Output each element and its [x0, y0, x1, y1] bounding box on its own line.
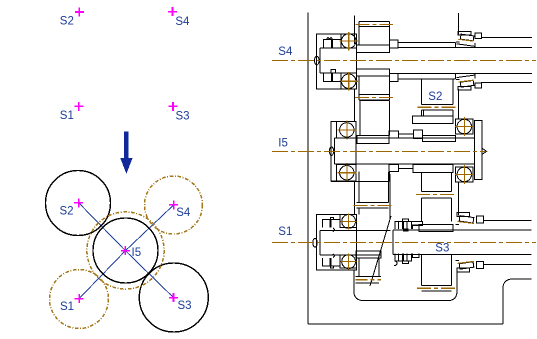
node S2 point cross — [75, 8, 84, 17]
housing inner bottom contour — [354, 270, 457, 301]
svg-text:S2: S2 — [60, 206, 74, 218]
housing web left segments — [354, 89, 356, 121]
seal S3 tab filled — [403, 229, 408, 232]
bearing S4 upper ball — [342, 34, 356, 48]
shaft S1 center mark — [313, 238, 317, 247]
centerline S4 — [272, 60, 536, 62]
gear S1 hub rect — [356, 251, 381, 258]
gear circle S3 (solid) — [139, 263, 208, 332]
seal S1 upper — [322, 217, 340, 231]
gear S4 tooth band top — [359, 21, 390, 26]
pitch line I5 lower — [354, 204, 392, 206]
gear S2 tooth band — [421, 105, 453, 111]
gear circle S4 (dashed) — [145, 176, 203, 234]
centerline S1-S3 — [272, 242, 536, 244]
gear S3 hub — [419, 225, 453, 232]
housing web top-left — [353, 16, 355, 45]
node S1 point cross — [74, 102, 83, 111]
gear S2 body — [421, 78, 453, 116]
bearing I5 left upper ball — [340, 123, 354, 137]
seal S4 upper — [323, 37, 341, 48]
pitch line S3 upper — [416, 194, 456, 196]
housing right lower contour — [503, 279, 532, 324]
gear S3 step left — [411, 221, 422, 225]
bearing S1 upper ball — [342, 215, 356, 229]
svg-text:S4: S4 — [175, 16, 190, 28]
shaft S4 neck — [320, 48, 357, 73]
gear S3 body upper — [422, 172, 452, 221]
wire center line I5-S3 — [125, 251, 173, 298]
pitch line S1 bottom — [355, 279, 381, 281]
svg-text:S3: S3 — [176, 111, 190, 123]
pitch line S2 — [417, 106, 456, 108]
section diagonal — [370, 216, 391, 286]
gear I5 upper hub — [357, 135, 389, 143]
bearing S4 lower square — [341, 73, 357, 89]
coupling rect B upper — [413, 130, 422, 138]
bearing cap S4 left — [317, 34, 357, 89]
gear S2 hub — [413, 116, 453, 123]
shaft I5 end chevron — [483, 149, 487, 155]
gear I5 lower body — [359, 172, 389, 203]
svg-text:S4: S4 — [278, 46, 293, 58]
pitch line S4 top — [355, 24, 393, 26]
gear S1 tooth band bottom — [355, 277, 381, 283]
svg-text:I5: I5 — [132, 247, 142, 259]
coupling rect A upper — [389, 131, 398, 138]
coupling connector upper — [398, 133, 413, 135]
bearing I5 right lower square — [456, 167, 474, 182]
seal S4 lower — [323, 69, 341, 81]
shaft I5 body — [335, 138, 475, 164]
wire center line I5-S1 — [79, 251, 125, 299]
bearing I5 right lower ball — [457, 167, 471, 181]
coupling sleeve upper — [422, 135, 455, 141]
bearing I5 left lower ball — [340, 166, 354, 180]
housing wall top-right — [458, 13, 460, 35]
node S2 center cross — [74, 198, 83, 207]
bearing I5 right upper square — [456, 119, 474, 134]
bearing I5 right upper ball — [457, 119, 471, 133]
coupling connector lower — [399, 167, 414, 169]
gear S1 upper body — [359, 174, 390, 219]
svg-text:S2: S2 — [428, 91, 442, 103]
svg-text:S1: S1 — [60, 110, 74, 122]
housing web right segments — [458, 89, 460, 119]
svg-text:S3: S3 — [435, 243, 449, 255]
coupling rect A lower — [389, 164, 399, 171]
node S1 center cross — [75, 294, 84, 303]
svg-text:S1: S1 — [278, 226, 292, 238]
coupling I5 upper: gear edge — [389, 101, 391, 131]
gear circle I5 outer (dashed) — [87, 212, 164, 289]
node I5 center cross — [121, 246, 130, 255]
bearing I5 left lower square — [337, 165, 356, 182]
bearing S3 taper lower — [456, 261, 484, 273]
svg-text:S1: S1 — [60, 301, 74, 313]
pitch line S3 bottom — [417, 287, 455, 289]
centerline I5 — [272, 150, 485, 152]
coupling I5 lower: gear edge — [389, 172, 391, 182]
gear S1 lower body — [359, 258, 379, 277]
bearing I5 left upper square — [337, 122, 356, 139]
gear S3 body lower — [422, 255, 452, 285]
shaft I5 center mark — [329, 147, 333, 155]
arrow down — [120, 132, 132, 174]
bearing S3 taper upper — [456, 213, 484, 225]
gear S4 tooth band bottom — [359, 95, 390, 100]
gear I5 upper body — [360, 101, 390, 136]
bearing S4 taper lower — [456, 79, 482, 90]
svg-text:S4: S4 — [176, 207, 191, 219]
node S4 center cross — [169, 200, 178, 209]
seal S3 upper — [395, 219, 421, 229]
bearing cap S1 left — [317, 215, 357, 270]
shaft S4 step right — [390, 40, 399, 48]
pitch line I5 upper — [355, 97, 393, 99]
gear S3 upper hub rect — [413, 164, 453, 172]
node S3 center cross — [169, 293, 178, 302]
svg-text:S2: S2 — [60, 16, 74, 28]
svg-text:S3: S3 — [178, 300, 192, 312]
gear I5 lower hub line — [331, 181, 388, 183]
bearing S4 taper upper — [456, 31, 482, 42]
gear circle S2 (solid) — [46, 171, 111, 236]
gear circle I5 inner (solid) — [93, 218, 158, 283]
bearing S1 lower square — [340, 255, 357, 268]
gear S4 hub rects — [356, 45, 389, 52]
bearing S4 upper square — [341, 34, 357, 48]
shaft S1-S3 lines — [320, 230, 532, 255]
shaft S4 mid lines — [398, 42, 532, 79]
gear S3 tooth band upper — [422, 191, 452, 198]
housing bottom wall — [308, 323, 503, 325]
svg-text:I5: I5 — [278, 138, 288, 150]
bearing S4 lower ball — [342, 74, 356, 88]
housing left wall — [307, 13, 309, 325]
wire center line I5-S2 — [79, 203, 126, 251]
gear S3 tooth band lower — [422, 285, 452, 291]
node S4 point cross — [168, 7, 177, 16]
bearing S1 upper square — [340, 215, 357, 228]
gear I5 upper tooth band — [360, 95, 390, 101]
seal S1 lower — [322, 254, 340, 268]
node S3 point cross — [169, 102, 178, 111]
gear I5 lower tooth band — [357, 202, 389, 208]
shaft S4 output lines — [481, 38, 532, 83]
bearing bracket I5 left — [331, 122, 356, 182]
bearing S1 lower ball — [342, 255, 356, 269]
bearing bracket I5 right — [475, 121, 482, 180]
wire center line I5-S4 — [125, 205, 173, 251]
seal S3 lower — [394, 254, 419, 266]
gear S4 body — [359, 21, 390, 100]
gear circle S1 (dashed) — [50, 270, 109, 329]
shaft S4 center mark — [315, 56, 320, 65]
shaft S3 output lines — [484, 220, 532, 264]
